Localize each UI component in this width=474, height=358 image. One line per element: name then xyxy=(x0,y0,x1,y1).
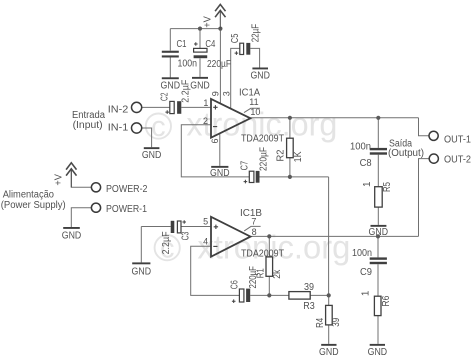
wire C3 gnd riser xyxy=(140,227,142,263)
svg-text:22µF: 22µF xyxy=(250,24,261,43)
svg-text:1K: 1K xyxy=(293,151,304,162)
svg-text:c: c xyxy=(151,111,166,143)
svg-text:100n: 100n xyxy=(178,58,198,69)
wire R2 bottom xyxy=(289,158,291,177)
svg-text:R1: R1 xyxy=(256,268,267,278)
wire C6 to R3 xyxy=(250,294,289,296)
resistor R2 xyxy=(275,138,304,162)
ground under R4 xyxy=(319,344,339,358)
power flag +V top xyxy=(215,4,225,28)
wire R1 bottom xyxy=(268,276,270,295)
junction node R1 top xyxy=(267,234,271,238)
svg-text:C6: C6 xyxy=(229,280,240,289)
wire C7 to R2 node xyxy=(260,176,329,178)
svg-text:C7: C7 xyxy=(240,161,251,171)
wire OUT-2 stub xyxy=(419,159,430,237)
wire output rail 2 xyxy=(251,235,419,237)
capacitor C3 xyxy=(161,220,192,254)
resistor R5 xyxy=(362,181,393,207)
svg-text:(Output): (Output) xyxy=(388,148,424,159)
ground under C5 xyxy=(250,68,270,82)
svg-text:R3: R3 xyxy=(303,301,315,312)
wire C2 to pin1 xyxy=(181,106,211,108)
wire C4 to ground xyxy=(199,58,201,77)
svg-text:9: 9 xyxy=(210,91,220,96)
svg-text:GND: GND xyxy=(161,81,181,92)
svg-text:2: 2 xyxy=(203,116,208,126)
terminal OUT-2 xyxy=(429,154,471,166)
svg-text:R2: R2 xyxy=(275,149,286,161)
wire C1 to ground xyxy=(169,57,171,77)
ground under pin6 xyxy=(210,166,230,179)
svg-text:1: 1 xyxy=(362,181,373,187)
svg-text:GND: GND xyxy=(369,227,389,238)
wire OUT-1 stub xyxy=(419,118,430,136)
svg-text:3: 3 xyxy=(222,91,232,96)
wire pin11 stub xyxy=(244,108,260,112)
svg-text:R5: R5 xyxy=(382,182,393,192)
op-amp IC1B xyxy=(211,208,284,259)
svg-text:GND: GND xyxy=(142,150,162,161)
capacitor C6 xyxy=(229,266,259,303)
wire pin7 stub xyxy=(244,226,260,231)
svg-text:GND: GND xyxy=(368,347,388,358)
wire pin2 feedback riser xyxy=(181,125,249,177)
wire POWER-2 to +V arrow xyxy=(71,170,91,188)
wire feedback A riser down xyxy=(328,177,330,296)
svg-text:TDA2009T: TDA2009T xyxy=(241,133,284,144)
svg-text:10: 10 xyxy=(250,107,260,117)
svg-text:8: 8 xyxy=(252,227,257,237)
ground under C3 xyxy=(132,262,152,277)
wire R1 top xyxy=(268,236,270,257)
svg-text:2.2µF: 2.2µF xyxy=(161,231,172,254)
wire C1 riser top xyxy=(169,29,171,51)
junction node R3 R4 xyxy=(327,293,331,297)
svg-text:220µF: 220µF xyxy=(258,147,269,171)
capacitor C1 xyxy=(162,39,197,69)
terminal OUT-1 xyxy=(429,131,471,145)
svg-text:+V: +V xyxy=(203,16,214,28)
wire C8 riser xyxy=(377,118,379,148)
svg-text:C5: C5 xyxy=(230,33,241,43)
svg-text:GND: GND xyxy=(319,347,339,358)
junction node C9 tap xyxy=(376,234,380,238)
junction node C8 tap xyxy=(376,116,380,120)
svg-text:IN-1: IN-1 xyxy=(108,122,129,133)
label Alimentacao Power Supply xyxy=(1,189,66,211)
svg-text:C4: C4 xyxy=(205,39,215,50)
wire +V rail top xyxy=(170,28,220,30)
wire IN-2 to C2 xyxy=(142,106,170,108)
resistor R4 xyxy=(315,305,342,328)
wire R6 to ground xyxy=(377,316,379,344)
capacitor C5 xyxy=(230,24,261,55)
junction node R2 top xyxy=(288,116,292,120)
capacitor C8 xyxy=(350,142,387,170)
terminal POWER-1 xyxy=(91,203,147,215)
power flag +V supply xyxy=(66,163,76,188)
ground under IN-1 xyxy=(142,147,162,161)
wire pin9 riser xyxy=(219,29,221,104)
watermark line 2 xyxy=(155,228,351,265)
svg-text:GND: GND xyxy=(62,230,82,241)
svg-text:R4: R4 xyxy=(315,318,326,328)
svg-text:C8: C8 xyxy=(360,158,372,169)
svg-text:+V: +V xyxy=(54,174,65,186)
svg-text:xtronic.org: xtronic.org xyxy=(197,228,350,265)
wire pin3 riser to C5 xyxy=(231,48,240,109)
svg-text:C3: C3 xyxy=(181,231,192,240)
wire pin6 to ground xyxy=(219,134,221,166)
svg-text:OUT-2: OUT-2 xyxy=(444,155,471,166)
svg-text:39: 39 xyxy=(304,282,314,293)
capacitor C7 xyxy=(240,147,270,183)
wire C8 to R5 xyxy=(377,155,379,187)
svg-text:R6: R6 xyxy=(381,295,392,306)
svg-text:39: 39 xyxy=(331,317,342,326)
wire R3 to R4 node xyxy=(310,294,329,296)
svg-text:1: 1 xyxy=(361,290,372,296)
svg-text:6: 6 xyxy=(210,138,220,143)
junction node C4 rail xyxy=(198,27,202,31)
svg-text:220µF: 220µF xyxy=(207,59,231,70)
wire C5 to ground xyxy=(250,48,259,67)
wire POWER-1 to ground xyxy=(71,208,91,227)
wire R4 to ground xyxy=(328,325,330,344)
capacitor C4 xyxy=(194,39,231,70)
terminal IN-1 xyxy=(108,122,142,133)
resistor R1 xyxy=(256,257,284,279)
watermark line 1 xyxy=(146,105,338,143)
wire pin4 feedback xyxy=(191,246,240,295)
svg-text:100n: 100n xyxy=(350,142,371,153)
svg-text:C2: C2 xyxy=(159,92,170,101)
ground under R6 xyxy=(368,344,388,358)
ground under POWER-1 xyxy=(62,227,82,241)
wire C9 to R6 xyxy=(377,264,379,296)
svg-text:5: 5 xyxy=(203,217,208,227)
junction node pin9 rail xyxy=(218,27,222,31)
svg-text:TDA2009T: TDA2009T xyxy=(241,248,284,259)
svg-text:C9: C9 xyxy=(360,267,372,278)
svg-text:2.2µF: 2.2µF xyxy=(180,80,191,103)
svg-text:GND: GND xyxy=(210,168,230,179)
svg-text:IN-2: IN-2 xyxy=(108,105,129,116)
wire C4 riser top xyxy=(199,29,201,49)
capacitor C9 xyxy=(352,248,387,278)
svg-text:Alimentação: Alimentação xyxy=(3,189,55,200)
svg-text:GND: GND xyxy=(190,80,210,91)
svg-text:POWER-1: POWER-1 xyxy=(106,204,147,215)
junction node R1 bottom xyxy=(267,293,271,297)
wire R2 top xyxy=(289,118,291,138)
svg-text:100n: 100n xyxy=(352,248,372,259)
wire output rail 1 xyxy=(250,117,418,119)
op-amp IC1A xyxy=(211,88,284,145)
svg-text:2k: 2k xyxy=(272,269,283,279)
wire R4 top xyxy=(328,295,330,305)
label Entrada Input xyxy=(72,110,105,131)
terminal POWER-2 xyxy=(91,183,147,195)
svg-text:OUT-1: OUT-1 xyxy=(444,134,471,145)
svg-text:C1: C1 xyxy=(177,39,187,50)
ground under C1 xyxy=(161,77,181,91)
capacitor C2 xyxy=(159,80,191,114)
junction node R2 bottom xyxy=(288,175,292,179)
label Saida Output xyxy=(388,139,424,159)
resistor R3 xyxy=(289,282,315,312)
svg-text:(Input): (Input) xyxy=(73,120,103,131)
wire C3 to pin5 xyxy=(181,226,211,228)
resistor R6 xyxy=(361,290,392,315)
svg-text:4: 4 xyxy=(203,237,208,247)
svg-text:1: 1 xyxy=(203,98,208,108)
wire R5 to ground xyxy=(377,207,379,225)
ground under C4 xyxy=(190,77,210,92)
wire C3 left to ground xyxy=(141,226,170,228)
terminal IN-2 xyxy=(108,102,142,115)
ground under R5 xyxy=(369,225,389,238)
wire IN-1 to ground xyxy=(142,128,152,147)
svg-text:(Power Supply): (Power Supply) xyxy=(1,200,66,211)
svg-text:POWER-2: POWER-2 xyxy=(106,184,148,195)
svg-text:GND: GND xyxy=(250,71,270,82)
svg-text:GND: GND xyxy=(132,266,152,277)
wire C9 riser xyxy=(377,236,379,257)
svg-text:11: 11 xyxy=(249,97,258,107)
svg-text:7: 7 xyxy=(251,217,256,227)
